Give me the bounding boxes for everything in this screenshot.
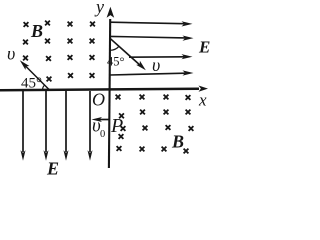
E-field arrow 4 (top-right) bbox=[110, 70, 194, 75]
svg-text:0: 0 bbox=[100, 129, 105, 140]
45 deg arc (top-right) bbox=[110, 46, 119, 50]
svg-text:υ: υ bbox=[7, 44, 15, 64]
x-axis bbox=[0, 86, 208, 92]
svg-text:E: E bbox=[198, 38, 210, 57]
45 deg arc (top-left) bbox=[43, 85, 45, 89]
B-field crosses (bottom-right quadrant) bbox=[116, 95, 194, 154]
svg-text:45°: 45° bbox=[107, 55, 125, 69]
E-field down arrow 1 (bottom-left) bbox=[21, 91, 26, 161]
velocity arrow v (top-left, 45 deg up-left) bbox=[20, 60, 49, 89]
initial velocity arrow v0 (pointing left across y-axis) bbox=[92, 117, 111, 122]
E-field down arrow 2 (bottom-left) bbox=[44, 91, 49, 161]
svg-text:y: y bbox=[94, 0, 104, 17]
svg-text:B: B bbox=[30, 21, 43, 41]
y-axis bbox=[107, 7, 115, 168]
svg-text:x: x bbox=[198, 91, 207, 110]
svg-text:υ: υ bbox=[152, 55, 160, 75]
svg-text:B: B bbox=[171, 132, 184, 152]
E-field arrow 2 (top-right) bbox=[110, 36, 194, 41]
velocity arrow v (top-right, 45 deg down-right from y-axis) bbox=[110, 38, 146, 70]
B-field crosses (top-left quadrant) bbox=[23, 21, 95, 82]
E-field down arrow 3 (bottom-left) bbox=[64, 91, 69, 161]
svg-text:O: O bbox=[92, 90, 105, 110]
E-field arrow 3 (top-right, starts right of 45 label) bbox=[129, 54, 193, 59]
E-field down arrow 4 (bottom-left) bbox=[88, 91, 93, 161]
svg-text:E: E bbox=[46, 159, 59, 178]
svg-text:45°: 45° bbox=[21, 76, 42, 92]
E-field arrow 1 (top-right) bbox=[111, 21, 193, 26]
